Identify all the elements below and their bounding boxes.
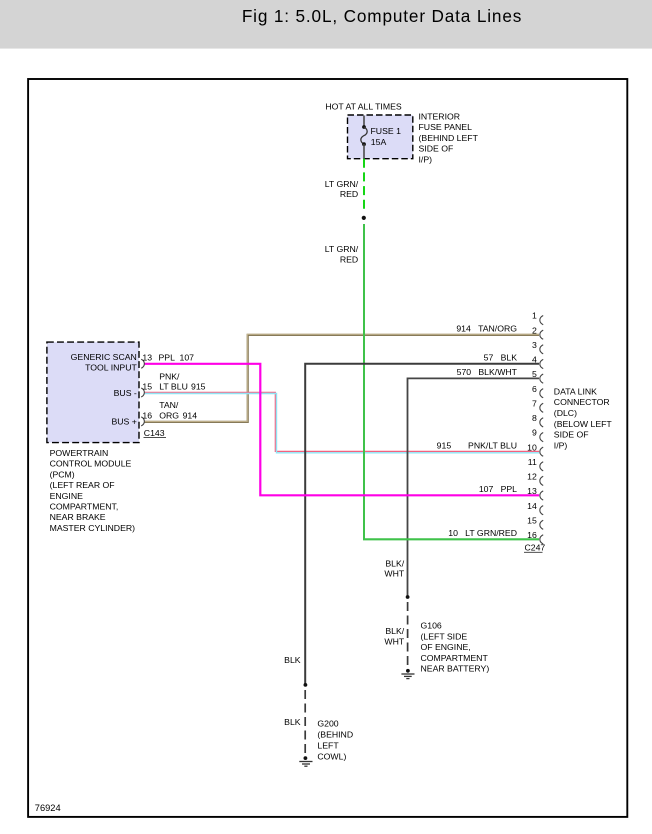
svg-text:4: 4 <box>532 355 537 365</box>
svg-text:914 TAN/ORG: 914 TAN/ORG <box>456 323 517 333</box>
svg-text:WHT: WHT <box>384 569 404 579</box>
svg-text:(DLC): (DLC) <box>554 408 577 418</box>
wire BLK/WHT dashed to G106 <box>407 602 409 670</box>
svg-text:COWL): COWL) <box>317 751 346 761</box>
svg-text:C143: C143 <box>144 428 165 438</box>
splice junction dot <box>362 216 366 220</box>
svg-text:107: 107 <box>180 353 195 363</box>
title band <box>0 0 652 49</box>
svg-text:CONTROL MODULE: CONTROL MODULE <box>50 459 132 469</box>
svg-text:10 LT GRN/RED: 10 LT GRN/RED <box>448 528 517 538</box>
wire 914 TAN/ORG dark layer <box>145 335 540 422</box>
svg-text:BLK: BLK <box>284 655 301 665</box>
svg-text:I/P): I/P) <box>554 440 568 450</box>
svg-text:C247: C247 <box>525 543 546 553</box>
PCM pin 15 terminal <box>141 388 144 397</box>
svg-text:BLK/: BLK/ <box>385 559 404 569</box>
svg-text:FUSE PANEL: FUSE PANEL <box>419 122 473 132</box>
wire 57 BLK <box>305 364 539 685</box>
svg-text:76924: 76924 <box>35 803 61 813</box>
svg-text:8: 8 <box>532 413 537 423</box>
svg-text:LT GRN/: LT GRN/ <box>325 244 359 254</box>
svg-text:ORG: ORG <box>159 410 179 420</box>
svg-text:14: 14 <box>527 501 537 511</box>
svg-text:COMPARTMENT: COMPARTMENT <box>421 653 489 663</box>
svg-text:GENERIC SCAN: GENERIC SCAN <box>71 352 137 362</box>
svg-text:6: 6 <box>532 384 537 394</box>
svg-text:16: 16 <box>142 410 152 420</box>
wire 107 PPL <box>145 364 540 496</box>
svg-text:57 BLK: 57 BLK <box>484 352 518 362</box>
svg-text:15: 15 <box>527 515 537 525</box>
svg-text:POWERTRAIN: POWERTRAIN <box>50 448 109 458</box>
svg-text:HOT AT ALL TIMES: HOT AT ALL TIMES <box>325 101 401 111</box>
wire fuse feed <box>363 116 365 127</box>
svg-text:915 PNK/LT BLU: 915 PNK/LT BLU <box>437 440 517 450</box>
svg-text:107 PPL: 107 PPL <box>479 484 517 494</box>
svg-text:OF ENGINE,: OF ENGINE, <box>421 642 471 652</box>
wire 914 TAN/ORG light layer <box>145 334 540 421</box>
wire 570 BLK/WHT <box>408 378 540 596</box>
svg-text:LT GRN/: LT GRN/ <box>325 179 359 189</box>
svg-text:1: 1 <box>532 311 537 321</box>
wire BLK dashed to G200 <box>304 690 306 757</box>
svg-text:WHT: WHT <box>384 637 404 647</box>
svg-text:MASTER CYLINDER): MASTER CYLINDER) <box>50 523 136 533</box>
svg-text:I/P): I/P) <box>419 154 433 164</box>
svg-text:9: 9 <box>532 428 537 438</box>
svg-text:15A: 15A <box>371 137 387 147</box>
fuse F1 bottom terminal <box>362 142 366 146</box>
splice dot BLK <box>304 683 308 687</box>
svg-text:NEAR BRAKE: NEAR BRAKE <box>50 512 106 522</box>
PCM pin 16 terminal <box>141 417 144 426</box>
svg-text:RED: RED <box>340 254 358 264</box>
svg-text:Fig 1: 5.0L, Computer Data Lin: Fig 1: 5.0L, Computer Data Lines <box>242 6 522 26</box>
svg-text:NEAR BATTERY): NEAR BATTERY) <box>421 664 490 674</box>
svg-text:(BELOW LEFT: (BELOW LEFT <box>554 419 613 429</box>
fuse F1 top terminal <box>362 125 366 129</box>
svg-text:(BEHIND: (BEHIND <box>317 730 353 740</box>
svg-text:LEFT: LEFT <box>317 741 339 751</box>
fuse F1 element <box>361 127 367 144</box>
svg-text:FUSE 1: FUSE 1 <box>371 126 402 136</box>
svg-text:CONNECTOR: CONNECTOR <box>554 397 610 407</box>
svg-text:G200: G200 <box>317 719 338 729</box>
svg-text:COMPARTMENT,: COMPARTMENT, <box>50 502 119 512</box>
svg-text:(LEFT REAR OF: (LEFT REAR OF <box>50 480 115 490</box>
svg-text:15: 15 <box>142 382 152 392</box>
svg-text:570 BLK/WHT: 570 BLK/WHT <box>457 367 518 377</box>
svg-text:(PCM): (PCM) <box>50 469 75 479</box>
svg-text:5: 5 <box>532 369 537 379</box>
DLC terminals pins 1-16 <box>540 316 543 545</box>
svg-text:(LEFT SIDE: (LEFT SIDE <box>421 631 468 641</box>
svg-text:BLK/: BLK/ <box>385 626 404 636</box>
svg-text:PNK/: PNK/ <box>159 371 180 381</box>
svg-text:13: 13 <box>527 486 537 496</box>
svg-text:TAN/: TAN/ <box>159 400 179 410</box>
wire 915 PNK/LT BLU pink layer <box>145 392 540 451</box>
svg-text:BLK: BLK <box>284 717 301 727</box>
svg-text:DATA LINK: DATA LINK <box>554 386 597 396</box>
wire LT GRN/RED solid vertical <box>363 224 365 539</box>
PCM box <box>47 342 139 443</box>
svg-text:2: 2 <box>532 325 537 335</box>
svg-text:7: 7 <box>532 398 537 408</box>
interior fuse panel box <box>348 115 413 159</box>
wire LT GRN/RED horizontal to DLC <box>363 538 539 540</box>
svg-text:914: 914 <box>183 410 198 420</box>
ground G106 <box>401 669 414 679</box>
svg-text:TOOL INPUT: TOOL INPUT <box>85 363 137 373</box>
svg-text:ENGINE: ENGINE <box>50 491 84 501</box>
svg-text:RED: RED <box>340 189 358 199</box>
PCM pin 13 terminal <box>141 359 144 368</box>
svg-text:INTERIOR: INTERIOR <box>419 112 461 122</box>
svg-text:10: 10 <box>527 442 537 452</box>
DLC pin numbers 1-16 <box>527 311 537 540</box>
svg-text:12: 12 <box>527 472 537 482</box>
svg-text:BUS +: BUS + <box>111 416 136 426</box>
svg-text:SIDE OF: SIDE OF <box>554 430 589 440</box>
svg-text:PPL: PPL <box>159 353 176 363</box>
svg-text:(BEHIND LEFT: (BEHIND LEFT <box>419 133 479 143</box>
wire LT GRN/RED dashed segment <box>363 159 365 211</box>
splice dot BLK/WHT <box>406 595 410 599</box>
ground G200 <box>299 756 312 766</box>
svg-text:915: 915 <box>191 382 206 392</box>
svg-text:LT BLU: LT BLU <box>159 382 188 392</box>
wire fuse to box edge <box>363 144 365 159</box>
svg-text:13: 13 <box>142 353 152 363</box>
svg-text:11: 11 <box>528 457 537 467</box>
svg-text:G106: G106 <box>421 621 442 631</box>
wire 915 PNK/LT BLU blue layer <box>145 394 539 453</box>
svg-text:16: 16 <box>527 530 537 540</box>
svg-text:SIDE OF: SIDE OF <box>419 144 454 154</box>
svg-text:BUS -: BUS - <box>114 388 137 398</box>
svg-text:3: 3 <box>532 340 537 350</box>
